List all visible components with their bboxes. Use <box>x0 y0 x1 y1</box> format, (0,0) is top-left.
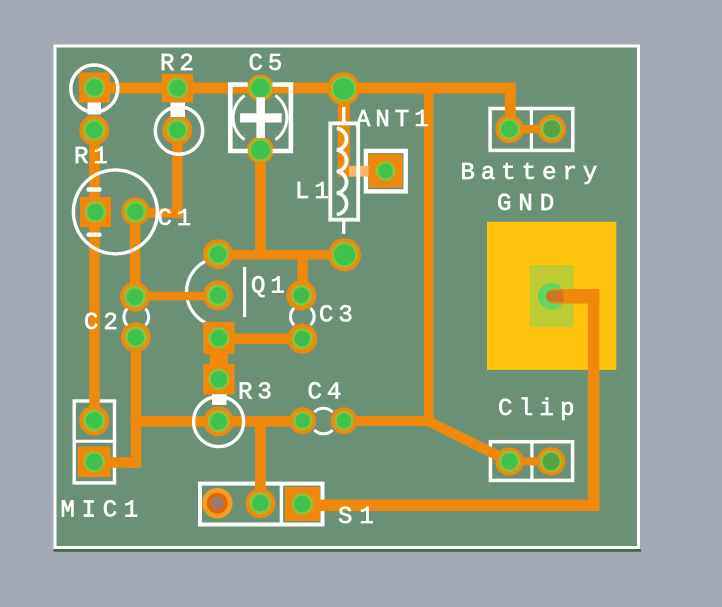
microphone MIC1 pad 2 (square) <box>78 447 111 478</box>
capacitor C2 pad 1 <box>120 282 150 312</box>
capacitor C5 polarity plus <box>240 113 282 122</box>
svg-text:C2: C2 <box>84 310 123 337</box>
resistor R2 outline circle <box>155 107 202 154</box>
svg-text:Clip: Clip <box>498 396 581 423</box>
svg-text:Q1: Q1 <box>251 274 290 301</box>
transistor Q1 pin 2 <box>203 280 233 310</box>
wire: battery pads bridge <box>509 125 551 134</box>
svg-text:R3: R3 <box>238 380 277 407</box>
resistor R3 body marker <box>212 394 227 405</box>
board bottom shadow line <box>54 549 642 552</box>
svg-text:R2: R2 <box>160 51 199 78</box>
wire: junction down to S1 pad2 <box>255 421 266 503</box>
wire: C1- down to C2 pad1 <box>130 212 141 297</box>
PCB board outline <box>54 45 641 550</box>
capacitor C5 outline brackets <box>230 85 247 151</box>
via/junction node B <box>328 238 361 271</box>
capacitor C4 pad 1 <box>289 407 316 434</box>
capacitor C4 pad 2 <box>331 407 358 434</box>
svg-text:GND: GND <box>497 191 561 218</box>
wire: diagonal junction to Clip pad 1 <box>429 421 510 461</box>
connector Clip outline <box>490 442 572 481</box>
antenna pad ANT1 outline <box>366 151 406 192</box>
connector Battery GND outline <box>490 109 573 151</box>
capacitor C1 pad - <box>121 197 150 226</box>
wire: R1 pad2 down to C1+ and MIC1 <box>89 130 100 421</box>
resistor R1 pad 1 (square) <box>79 73 110 103</box>
pour pad <box>538 283 565 310</box>
wire: clip pads bridge <box>509 457 551 465</box>
wire: Q1 emitter to C3 pad2 <box>218 334 302 345</box>
wire: Q1 collector row to via2 <box>218 250 345 260</box>
capacitor C1 pad + (square) <box>80 197 111 227</box>
microphone MIC1 pad 1 <box>79 406 109 436</box>
wire: C2 pad2 down, over to MIC1 pad2, branch to R3 row <box>131 337 142 468</box>
wire: top rail R1-R2-C5-via-battery <box>95 83 516 94</box>
copper pour / tab (yellow) <box>487 222 616 370</box>
svg-text:S1: S1 <box>338 504 381 531</box>
pour inner pad zone <box>530 265 574 327</box>
capacitor C3 symbol arcs <box>311 308 315 325</box>
Clip pad 1 <box>495 447 523 475</box>
wire: Q1 emitter squares bridge <box>210 350 229 368</box>
capacitor C1 polarity dash top <box>87 187 102 191</box>
svg-text:C1: C1 <box>158 206 197 233</box>
capacitor C4 symbol arcs <box>314 408 332 412</box>
resistor R3 pad 1 (square) <box>203 364 234 395</box>
resistor R2 body marker <box>171 103 186 118</box>
resistor R2 pad 1 (square) <box>162 74 193 103</box>
antenna pad ANT1 <box>369 154 403 187</box>
wire: light trace L1 to ANT1 (other layer) <box>349 166 371 177</box>
wire: collector row down to C3 pad1 <box>297 255 308 295</box>
wire: C2 pad1 to Q1 base <box>135 292 218 301</box>
switch S1 pad 1 (unplated hole) <box>202 488 233 519</box>
svg-text:R1: R1 <box>74 144 113 171</box>
Battery GND pad 2 <box>538 115 566 143</box>
resistor R3 outline circle <box>194 397 244 447</box>
resistor R1 body marker <box>88 103 102 115</box>
resistor R1 pad 2 <box>79 115 109 145</box>
capacitor C5 can circle arcs <box>275 96 286 140</box>
svg-text:C3: C3 <box>319 303 358 330</box>
resistor R2 pad 2 <box>162 115 192 145</box>
Battery GND pad 1 <box>495 115 523 143</box>
svg-text:C5: C5 <box>249 51 288 78</box>
wire: C4 pad2 to junction <box>344 416 429 426</box>
wire: R2 pad2 down and left to C1- <box>172 130 183 218</box>
connector S1 outline <box>200 484 323 525</box>
wire: via1 down behind L1 <box>338 89 350 177</box>
svg-text:C4: C4 <box>308 380 347 407</box>
transistor Q1 pin 3 (square) <box>203 322 234 354</box>
capacitor C3 pad 1 <box>286 280 316 310</box>
wire: S1 pad3 to bottom rail, up right side to pour pad <box>551 289 599 304</box>
svg-text:MIC1: MIC1 <box>61 498 145 525</box>
capacitor C1 polarity dash bottom <box>87 233 102 237</box>
wire: C5 pad2 down to collector row <box>255 150 266 255</box>
inductor L1 outline <box>330 123 358 219</box>
switch S1 pad 2 <box>245 488 275 518</box>
resistor R1 outline circle <box>71 65 118 112</box>
capacitor C5 pad 1 <box>247 75 274 102</box>
svg-text:L1: L1 <box>295 179 334 206</box>
capacitor C5 pad 2 <box>247 137 274 164</box>
transistor Q1 flat-side chord <box>243 267 246 317</box>
Clip pad 2 <box>537 447 565 475</box>
svg-text:Battery: Battery <box>461 160 604 187</box>
svg-text:ANT1: ANT1 <box>356 107 434 134</box>
wire: R3 row horizontal to C4 pad1 <box>131 416 303 427</box>
transistor Q1 pin 1 <box>203 239 233 269</box>
resistor R3 pad 2 <box>204 406 234 436</box>
capacitor C2 pad 2 <box>121 322 151 352</box>
transistor Q1 outline circle <box>187 261 206 322</box>
switch S1 pad 3 (square) <box>285 487 320 521</box>
capacitor C3 pad 2 <box>287 324 317 354</box>
inductor L1 coil arcs <box>337 129 347 215</box>
capacitor C2 symbol arcs <box>146 309 149 326</box>
wire: branch down to C4/Clip junction <box>424 83 434 421</box>
connector MIC1 outline <box>74 401 114 483</box>
capacitor C1 outline circle <box>73 170 157 254</box>
via/junction node A <box>327 72 360 105</box>
